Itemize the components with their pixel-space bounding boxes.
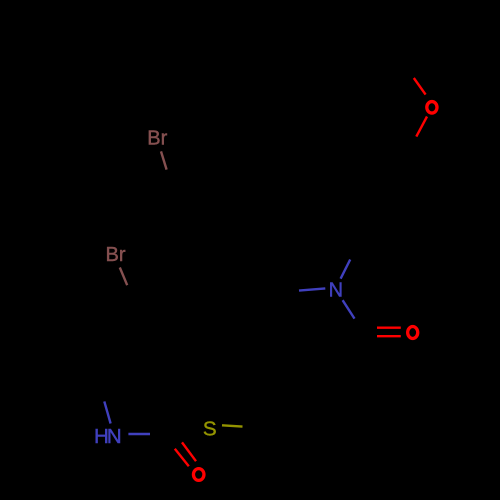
double bond C=O line 1 (half near O) xyxy=(377,327,401,329)
bond N-C(aryl) (half near N) xyxy=(341,260,351,279)
double bond C=O line 2 (half near O) xyxy=(377,335,401,337)
svg-text:Br: Br xyxy=(106,244,126,266)
double bond C=O line 2 (half near O) xyxy=(175,449,189,467)
amide carbonyl O label xyxy=(408,327,418,339)
double bond C=O line 1 (half near O) xyxy=(182,442,196,461)
svg-text:N: N xyxy=(329,280,343,302)
bond N-C(aryl) (half near N) xyxy=(104,401,110,423)
bond Br1-C (half near Br) xyxy=(161,151,167,169)
methoxy O label xyxy=(427,102,437,114)
svg-text:S: S xyxy=(203,418,217,441)
bond Br2-C (half near Br) xyxy=(120,268,127,286)
bond N-C(=O) (half near N) xyxy=(343,300,355,318)
svg-text:Br: Br xyxy=(147,128,167,150)
lactam carbonyl O label xyxy=(193,469,204,481)
bond S-CH2 (half near S) xyxy=(222,425,243,426)
svg-text:HN: HN xyxy=(94,425,121,448)
bond CH3-O (half near O) xyxy=(414,78,426,95)
bond N-C(=O) (half near N) xyxy=(128,433,150,435)
bond O-C(aryl) (half near O) xyxy=(416,117,427,137)
bond N-CH2 (half near N) xyxy=(299,288,325,290)
